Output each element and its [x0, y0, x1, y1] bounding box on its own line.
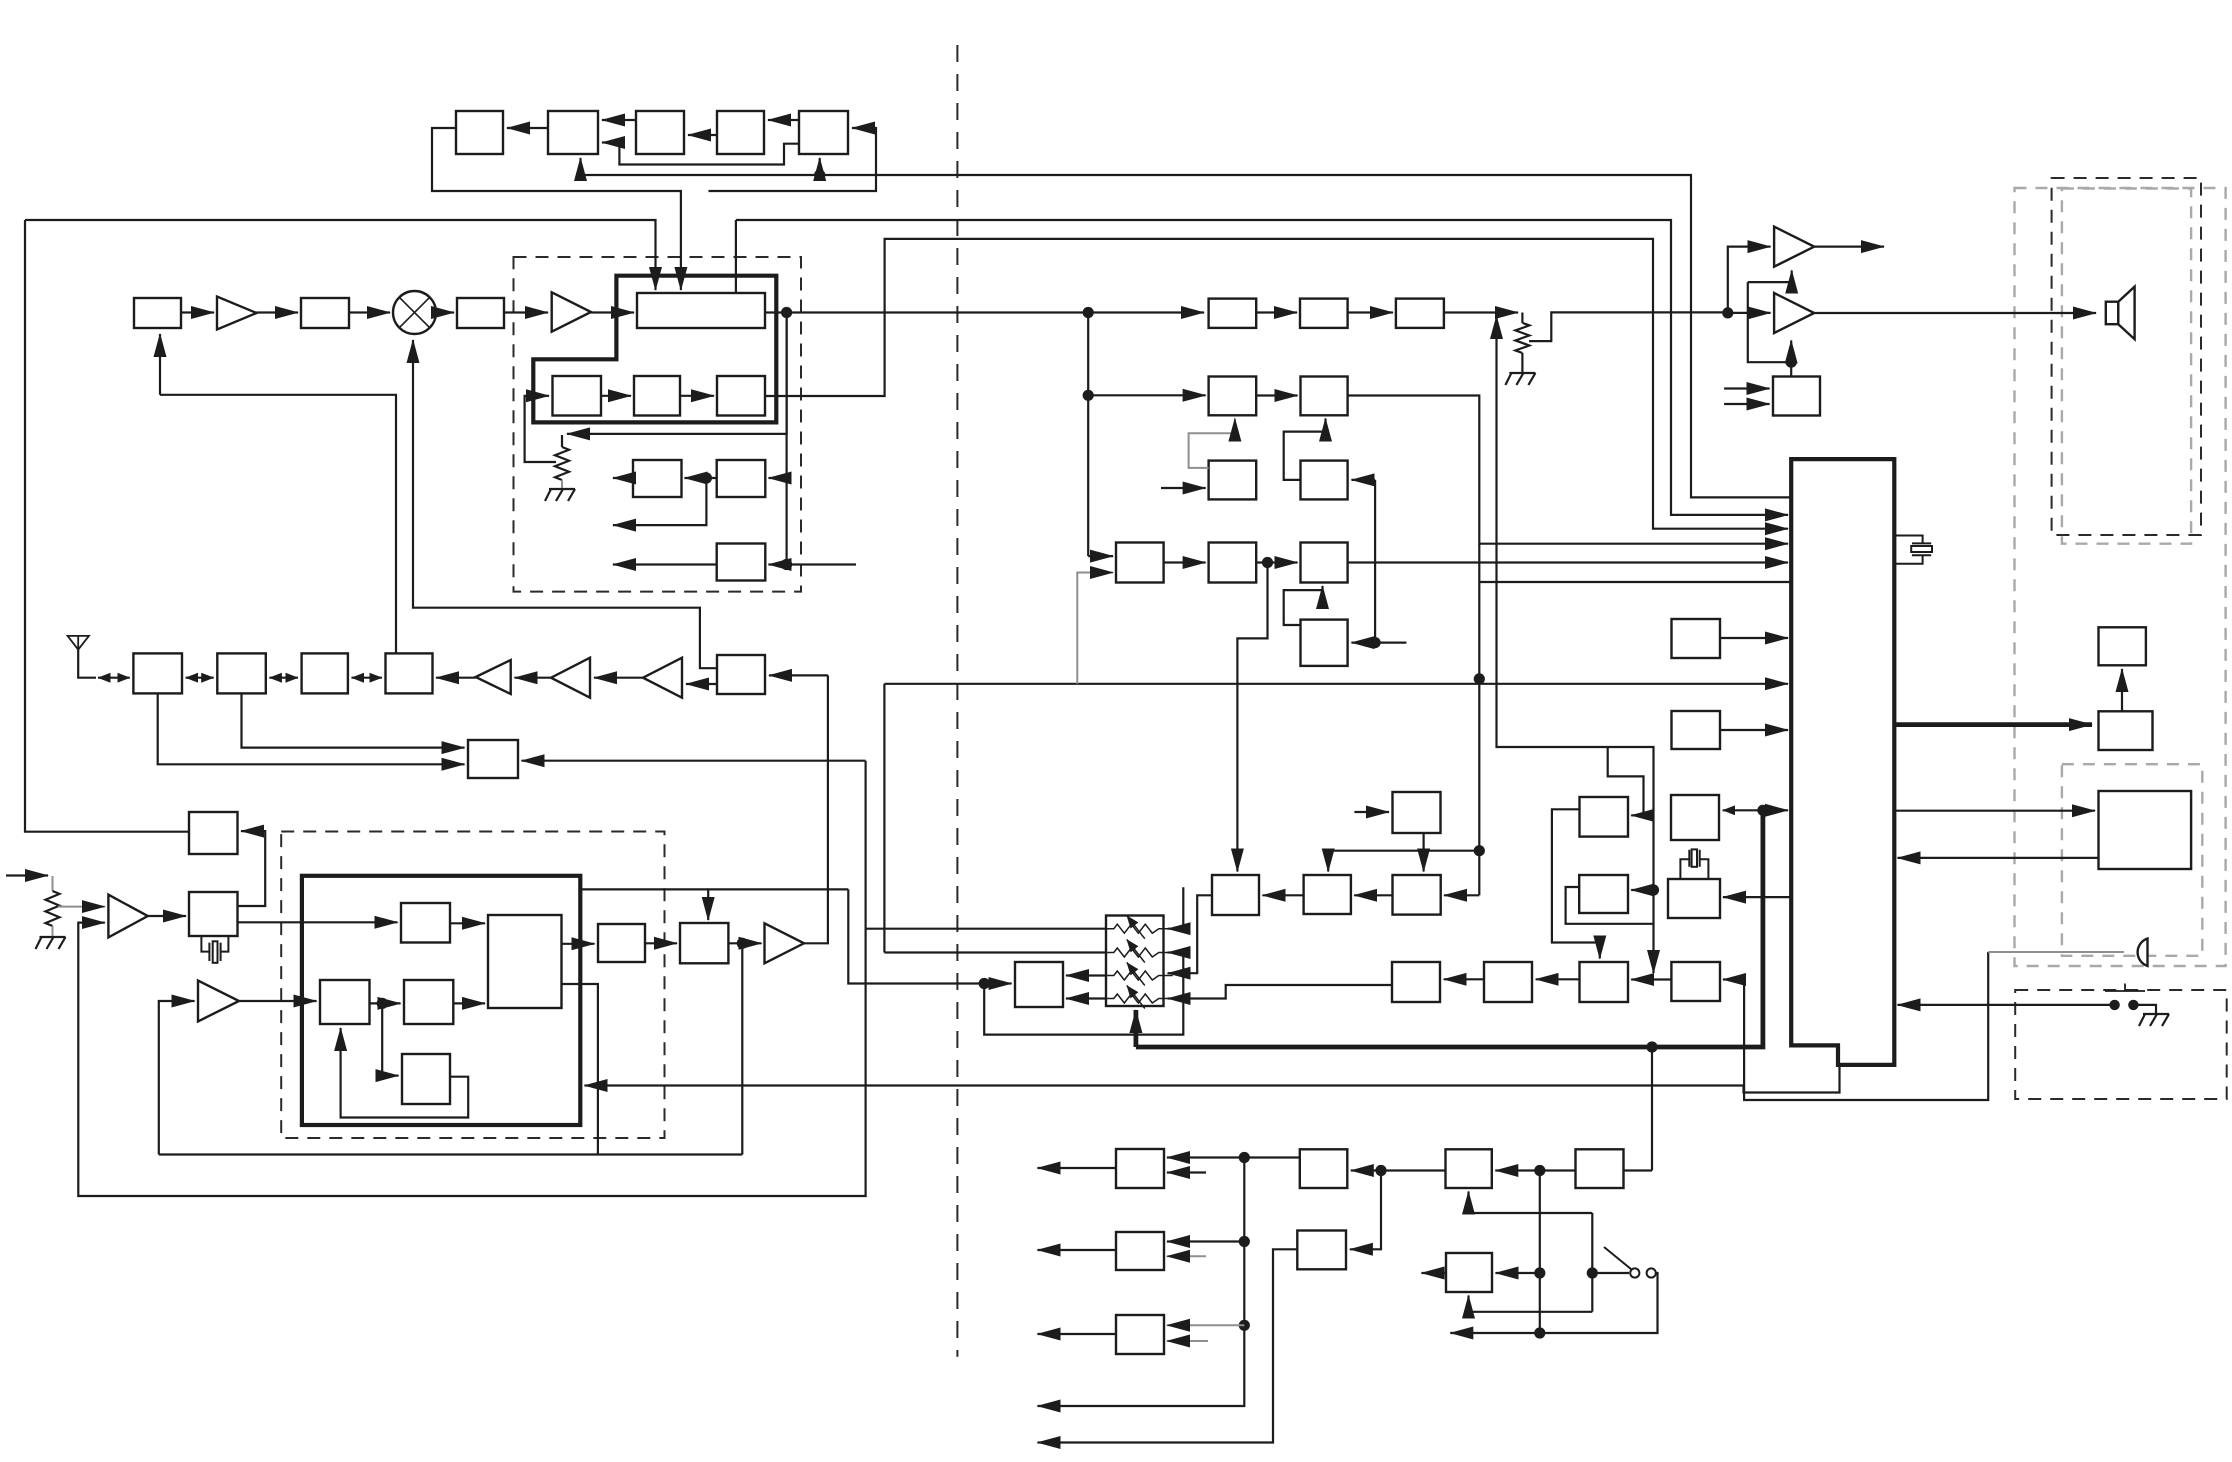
wire LB output main line	[765, 311, 1204, 313]
op-amp RX A2	[551, 658, 590, 698]
dashed box oscillator section	[514, 257, 802, 592]
trimmer R3	[1100, 971, 1173, 980]
wire W2 stub2	[1167, 1255, 1206, 1257]
wire volume wiper out	[1529, 312, 1728, 341]
box X6 DAC	[1015, 962, 1063, 1007]
box shift reg	[1671, 795, 1719, 840]
junction trunk3 bot	[1534, 1327, 1545, 1338]
wire S2 input stub	[1354, 811, 1389, 813]
wire P4 to P5	[1164, 561, 1206, 563]
wire row2 riser	[883, 684, 885, 953]
box AntD	[386, 653, 433, 693]
wire Q2 output to IC	[1348, 396, 1788, 544]
wire C1 to C2	[601, 395, 631, 397]
wire row2 feed	[1168, 951, 1184, 953]
box reg W2	[1116, 1232, 1164, 1270]
box ref osc	[1668, 879, 1720, 918]
box T6	[1301, 543, 1348, 583]
junction B8 feed	[781, 559, 792, 570]
wire W5 out to trunk	[1244, 1156, 1300, 1158]
wire pot tap to C1	[525, 396, 556, 462]
wire amp2 input from L1	[159, 1001, 195, 1155]
wire main line injection arrow	[1495, 316, 1497, 332]
wire W3 output stub	[1038, 1333, 1117, 1335]
box J1	[1672, 619, 1721, 658]
dashed box speaker black	[2052, 178, 2201, 535]
box B8	[717, 544, 766, 581]
wire net1479 trunk	[1478, 544, 1480, 896]
box W12b	[1579, 875, 1628, 913]
wire W8 output stub	[1422, 1272, 1447, 1274]
wire R2 to Q2 elbow	[1284, 419, 1326, 480]
wire tap trunk down	[1087, 313, 1089, 557]
IC microcontroller block	[1791, 459, 1894, 1065]
op-amp A2 IF	[552, 292, 591, 331]
box P5	[1209, 543, 1257, 583]
dashed box mic inner gray	[2062, 764, 2202, 956]
box AntC	[302, 653, 348, 693]
speaker	[2106, 287, 2135, 340]
wire W1 stub2	[1167, 1171, 1206, 1173]
wire gate into TR box	[1790, 362, 1792, 376]
wire top amp output stub	[1814, 246, 1884, 248]
wire micamp out to X3	[148, 915, 186, 917]
box AntE TR switch	[717, 655, 765, 694]
thick wire IC to driver	[1894, 722, 2092, 727]
ground pot1	[545, 489, 575, 501]
box J2	[1672, 711, 1721, 749]
wire W7 to trunk3	[1540, 1169, 1576, 1171]
junction audio split	[1722, 307, 1733, 318]
bidirectional arrows AntB-AntC	[269, 677, 298, 679]
junction tap P2row	[1083, 390, 1094, 401]
box S sub	[1301, 620, 1348, 666]
wire LB dot down trunk	[785, 313, 787, 565]
thick wire into trimmer bottom	[1134, 1010, 1139, 1047]
junction net1653	[1648, 884, 1659, 895]
wire bottom stub arrow	[1450, 1332, 1540, 1334]
trimmer R2	[1100, 948, 1173, 957]
crystal above ref osc	[1680, 849, 1708, 879]
junction B7 line	[701, 472, 712, 483]
dashed box PLL section	[281, 832, 664, 1139]
box RF amp in MR1	[134, 298, 181, 328]
wire TC5 to TC4	[768, 119, 799, 121]
wire IC bottom modulation	[585, 1065, 1840, 1093]
wire A1rx to AntD	[436, 677, 476, 679]
box V1b	[1392, 962, 1440, 1002]
trimmer R4	[1100, 994, 1173, 1003]
box X2 squelch	[189, 812, 238, 854]
junction main line tap	[1083, 307, 1094, 318]
box IF long block LB	[637, 293, 765, 328]
wire squelch to P4	[1077, 573, 1113, 684]
wire W1 output stub	[1038, 1167, 1117, 1169]
wire TX into AntE	[769, 674, 828, 676]
box reg W3	[1116, 1315, 1164, 1354]
op-amp AF power	[1774, 293, 1814, 333]
wire trimmer row3 to X6	[1066, 974, 1106, 976]
junction net1479 low	[1474, 845, 1485, 856]
wire B7 to B6	[685, 477, 717, 479]
wire A1 to MR2	[257, 311, 299, 313]
wire A3rx to A2rx	[594, 677, 643, 679]
wire X5 branch down to L1	[741, 943, 743, 1154]
box X3 filter	[189, 892, 238, 936]
wire S stub right	[1375, 641, 1406, 643]
wire X5 top feed	[708, 889, 848, 920]
wire J1 to IC	[1720, 637, 1788, 639]
wire C3 output to IC	[765, 239, 1788, 529]
wire E into LB top	[735, 220, 737, 293]
wire pot2 stub	[1521, 313, 1523, 323]
wire AntB bottom to X top	[242, 693, 465, 747]
wire power trunk1	[1038, 1158, 1245, 1407]
wire Q1 to Q2	[1256, 394, 1297, 396]
switch contact left	[2109, 1000, 2119, 1010]
box R1	[1209, 461, 1257, 500]
box R2	[1301, 461, 1348, 500]
wire IC to LCD	[1894, 810, 2095, 812]
wire X4 to X5	[645, 942, 677, 944]
junction serial bus	[1757, 805, 1768, 816]
op-amp mic A	[108, 895, 147, 938]
wire mic input stub	[6, 874, 48, 876]
wire switch return	[1540, 1273, 1658, 1333]
wire RX gate line to IC	[1479, 581, 1791, 583]
wire P5 branch to W10	[1237, 563, 1267, 872]
box T4 VCO	[488, 915, 562, 1008]
antenna symbol	[68, 636, 89, 650]
wire riser down to X6	[848, 889, 1011, 983]
op-amp RX A1	[476, 660, 511, 694]
ground mic pot	[36, 937, 66, 949]
wire to top amp	[1728, 247, 1771, 313]
wire trunk2 into W4	[1350, 1171, 1381, 1250]
wire RX control line	[884, 683, 1788, 685]
box TC3	[636, 111, 684, 154]
wire net V1 down	[78, 761, 865, 1196]
wire TC2 to TC1	[507, 127, 548, 129]
wire AF amp to speaker	[1814, 312, 2096, 314]
box LED	[2099, 627, 2146, 665]
resistor mic pot	[46, 891, 60, 926]
box LCD	[2099, 791, 2192, 869]
wire B8 right stub	[787, 563, 856, 565]
wire amp2 to T2	[239, 1000, 317, 1002]
op-amp TX driver	[765, 923, 805, 963]
wire main line to AF amp	[1728, 312, 1771, 314]
ground line pot	[1505, 373, 1535, 385]
ceramic filter under X3	[201, 936, 228, 963]
wire trunk into W1	[1167, 1156, 1244, 1158]
wire V3b to V2b	[1536, 978, 1580, 980]
box TC2	[548, 111, 598, 154]
wire micpot tap	[58, 906, 105, 908]
bidirectional arrows AntA-AntB	[186, 677, 214, 679]
wire to switch contact	[1592, 1272, 1629, 1274]
wire top amp gate	[1748, 271, 1792, 283]
wire antenna stem	[78, 649, 96, 678]
wire V2b to V1b	[1444, 978, 1484, 980]
box T2 phase det	[320, 980, 370, 1024]
box X discriminator	[468, 740, 518, 778]
wire bus B vertical arrow into TC2 bottom	[579, 158, 581, 175]
box C3	[717, 376, 765, 416]
box C2	[634, 376, 680, 416]
wire AntA bottom to X upper	[158, 693, 465, 764]
box TC5	[799, 111, 848, 154]
box LED driver	[2099, 711, 2153, 750]
wire E right segment to IC	[736, 220, 1788, 515]
box AntB	[217, 653, 265, 693]
junction W5W6	[1375, 1165, 1386, 1176]
box P4	[1116, 543, 1164, 583]
wire trunk into P4	[1088, 555, 1113, 557]
wire IC to ref osc	[1723, 896, 1791, 898]
wire trunk3	[1539, 1171, 1541, 1334]
junction net1479 rx	[1474, 673, 1485, 684]
box T1	[401, 903, 450, 943]
op-amp RX A3	[643, 658, 682, 698]
wire R1 to Q1 elbow	[1189, 419, 1235, 468]
wire trunk3 into W8	[1496, 1272, 1540, 1274]
wire mixer to MR3	[436, 311, 454, 313]
box P3c	[1396, 299, 1444, 328]
crystal on IC right	[1894, 536, 1932, 564]
box B6	[633, 460, 682, 497]
box T5	[402, 1054, 450, 1104]
junction bus B at TC5	[814, 169, 825, 180]
box filter MR2	[301, 298, 349, 328]
resistor line pot	[1515, 323, 1529, 353]
box reg W1	[1116, 1149, 1164, 1188]
wire S2 to W12	[1422, 833, 1424, 872]
wire C2 to C3	[680, 395, 714, 397]
wire MR2 to mixer	[349, 311, 390, 313]
wire net1479 into W12	[1444, 894, 1479, 896]
wire MR3 to A2	[504, 311, 548, 313]
wire B7 branch output stub	[613, 478, 706, 525]
dashed box speaker outer gray	[2015, 188, 2226, 966]
wire T2 to T3	[370, 1002, 401, 1004]
wire TC4 to TC3	[688, 134, 717, 136]
wire A2 to LB	[591, 311, 634, 313]
wire volume pot feed	[567, 313, 787, 434]
box battery W7	[1576, 1149, 1624, 1188]
wire W7 riser	[1651, 1047, 1653, 1171]
wire switch to IC	[1898, 1004, 2115, 1006]
box reg W4	[1297, 1231, 1346, 1270]
box filter MR3	[457, 298, 504, 328]
wire B8 output stub	[613, 563, 717, 565]
wire W12b elbow	[1566, 887, 1654, 924]
wire stub PLL to riser	[580, 888, 708, 890]
box mute control	[1773, 377, 1820, 416]
wire mute stub 2	[1724, 403, 1769, 405]
wire pot top stub	[561, 435, 563, 447]
wire W4 loop	[1038, 1249, 1298, 1442]
resistor volume pot	[555, 447, 569, 480]
box X4	[598, 924, 645, 962]
wire V1 tap to trimmer row1	[866, 928, 1106, 930]
wire LCD to IC	[1898, 857, 2099, 859]
wire battery W7 right	[1624, 1169, 1653, 1171]
junction power switch	[1587, 1267, 1598, 1278]
wire T3 to T4	[453, 1002, 485, 1004]
box mic amp2	[1671, 962, 1720, 1001]
wire W3 stub2	[1167, 1340, 1208, 1342]
wire gate trunk	[1748, 282, 1791, 362]
wire mic route to amp	[1723, 952, 1988, 1100]
wire S2b feed	[1608, 747, 1644, 815]
wire tap to Q1	[1088, 394, 1205, 396]
box Q1	[1209, 377, 1257, 416]
junction X5 out	[737, 938, 748, 949]
wire T1 to T4	[450, 922, 485, 924]
wire T4 out2 down	[562, 984, 598, 1155]
dashed box switch	[2015, 990, 2227, 1099]
wire P2 to P3c	[1348, 311, 1393, 313]
wire trunk into W3	[1167, 1324, 1244, 1326]
wire gate into main amp	[1790, 341, 1792, 363]
wire row1 stub feed	[1168, 887, 1184, 928]
box TC4	[717, 111, 764, 154]
wire trunk into B8	[769, 563, 787, 565]
wire W6 to dot	[1381, 1169, 1446, 1171]
wire R1 input stub	[1161, 487, 1206, 489]
wire mute stub 1	[1724, 387, 1769, 389]
wire net to X right	[522, 760, 866, 762]
dashed box speaker inner gray	[2062, 189, 2191, 544]
wire TC5 right input elbow	[709, 128, 877, 191]
wire mic amp2 to V3b	[1631, 978, 1671, 980]
wire B6 output stub	[613, 477, 633, 479]
switch contact right	[2128, 1000, 2138, 1010]
wire T2 branch to T5	[382, 1003, 398, 1075]
wire T5 loop to T2	[341, 1028, 469, 1118]
wire net1479 to W11	[1328, 851, 1479, 872]
wire trunk3 into W6	[1495, 1169, 1540, 1171]
junction S feed	[1370, 637, 1381, 648]
wire loop under trimmer	[984, 953, 1183, 1035]
dashed demarcation centerline	[956, 45, 958, 1357]
box W10	[1212, 875, 1259, 915]
box C1	[553, 376, 602, 416]
wire T/R thick rail	[1136, 810, 1763, 1047]
bold PLL block frame	[302, 876, 580, 1125]
box T3	[404, 980, 453, 1024]
wire switch into W8	[1469, 1296, 1593, 1312]
wire MR1 feed from AntD	[160, 395, 396, 654]
wire AntE to A3rx	[686, 683, 717, 685]
junction trunk3 top	[1534, 1165, 1545, 1176]
wire W11 to W10	[1263, 894, 1304, 896]
wire switch into W6	[1469, 1192, 1593, 1214]
wire X3 to T1	[238, 921, 398, 923]
junction trunk W2	[1239, 1236, 1250, 1247]
box reg W5	[1300, 1149, 1348, 1188]
box W12	[1393, 875, 1441, 915]
wire bus B horizontal to IC	[581, 175, 1792, 497]
wire mixer LO feed	[413, 340, 717, 668]
wire trunk into S	[1352, 641, 1376, 643]
box TC1	[456, 111, 503, 154]
wire MR1 bottom feed	[159, 334, 161, 395]
mixer M1	[393, 291, 436, 334]
junction trunk W1	[1239, 1152, 1250, 1163]
wire P5 to T6	[1256, 561, 1297, 563]
wire T6 output to IC	[1348, 561, 1788, 563]
box P1	[1209, 299, 1257, 328]
wire mic lead	[1988, 951, 2124, 953]
wire pot2 gnd lead	[1521, 353, 1523, 372]
wire X3 tap to X2	[238, 831, 266, 906]
wire driver to LED	[2121, 669, 2123, 711]
bidirectional arrows IC-shift reg	[1723, 809, 1788, 811]
trimmer R1	[1100, 924, 1173, 933]
wire net to W12b	[1631, 889, 1653, 891]
wire pot to ground	[561, 480, 563, 489]
wire S to T6 elbow	[1284, 586, 1323, 625]
box reg W6	[1446, 1149, 1492, 1188]
op-amp A1	[217, 297, 257, 330]
junction T2 out	[377, 998, 388, 1009]
junction X6 feed	[979, 978, 990, 989]
wire W10 to trimmer row3	[1168, 895, 1211, 973]
bold IF IC frame	[533, 276, 776, 423]
bidirectional arrows antenna to AntA	[98, 677, 130, 679]
junction W7 tap	[1646, 1041, 1657, 1052]
wire W2 output stub	[1038, 1249, 1117, 1251]
wire trunk into B7	[769, 477, 787, 479]
junction trunk W3	[1239, 1320, 1250, 1331]
junction trunk3 mid	[1534, 1267, 1545, 1278]
wire row2 lead	[884, 951, 1106, 953]
wire trimmer row4 to X6	[1066, 997, 1106, 999]
wire R2 feed trunk	[1374, 480, 1376, 643]
junction LB out	[781, 307, 792, 318]
wire trunk into W2	[1167, 1240, 1244, 1242]
box V2b	[1484, 962, 1532, 1002]
wire W12 to W11	[1354, 894, 1392, 896]
wire bus B arrow into TC5 bottom	[819, 158, 821, 175]
wire L1 rail	[159, 1153, 743, 1155]
wire R2 input	[1352, 479, 1376, 481]
op-amp TX A	[198, 981, 239, 1022]
wire injection net down	[1497, 318, 1654, 973]
wire A2rx to A1rx	[515, 677, 552, 679]
ground switch	[2139, 1014, 2169, 1026]
wire into W5	[1351, 1169, 1381, 1171]
wire TC1 feedback down	[432, 128, 681, 290]
junction gate	[1786, 357, 1797, 368]
wire switch blade bar	[1591, 1213, 1593, 1312]
box X5 modulator	[680, 923, 728, 963]
wire V1b to trimmer row4	[1168, 985, 1392, 999]
bidirectional arrows AntC-AntD	[352, 677, 382, 679]
wire MR1 to A1	[181, 311, 214, 313]
box P2	[1300, 299, 1348, 328]
box W11	[1304, 875, 1351, 914]
box reg W8	[1446, 1253, 1492, 1292]
wire TX driver up to AntE	[804, 675, 828, 943]
wire micpot gnd lead	[52, 926, 54, 936]
wire X5 out	[728, 942, 761, 944]
microphone	[2138, 939, 2148, 967]
wire left rail to X2	[25, 220, 189, 832]
wire micpot top	[52, 876, 54, 891]
